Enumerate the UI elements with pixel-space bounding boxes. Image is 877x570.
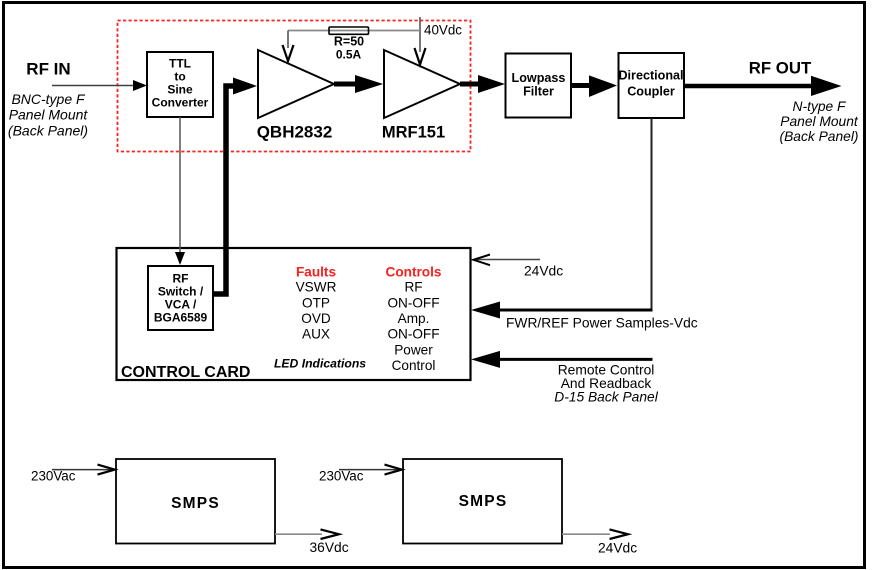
svg-text:Amp.: Amp. — [398, 311, 430, 326]
svg-text:Sine: Sine — [167, 83, 193, 97]
block RF Switch / VCA / BGA6589 — [148, 266, 213, 330]
svg-text:Filter: Filter — [523, 85, 554, 99]
wire RF switch output to QBH2832 input (thick) — [213, 78, 257, 295]
RF amplifier module boundary (red dashed) — [118, 21, 471, 152]
svg-text:AUX: AUX — [302, 327, 330, 342]
label Controls column — [386, 265, 442, 374]
wire RF IN to TTL converter — [52, 80, 147, 91]
svg-text:Lowpass: Lowpass — [512, 71, 566, 85]
wire SMPS 2 24Vdc output — [562, 529, 628, 539]
wire TTL converter to RF switch — [175, 117, 185, 265]
svg-text:BNC-type F: BNC-type F — [11, 91, 86, 107]
svg-text:SMPS: SMPS — [459, 493, 508, 510]
svg-text:24Vdc: 24Vdc — [598, 541, 637, 556]
svg-text:0.5A: 0.5A — [336, 48, 362, 62]
label LED Indications — [274, 357, 366, 371]
svg-text:Panel Mount: Panel Mount — [9, 107, 89, 123]
svg-text:VSWR: VSWR — [296, 280, 337, 295]
svg-text:Panel Mount: Panel Mount — [780, 114, 859, 129]
label BNC-type F connector — [8, 91, 88, 138]
svg-text:RF OUT: RF OUT — [749, 59, 812, 78]
label Remote Control And Readback — [554, 363, 658, 405]
node 24Vdc — [524, 264, 563, 279]
svg-text:230Vac: 230Vac — [31, 469, 76, 484]
svg-text:N-type F: N-type F — [793, 99, 847, 114]
label FWR/REF Power Samples — [506, 316, 698, 331]
svg-text:Coupler: Coupler — [627, 85, 675, 99]
label N-type F connector — [780, 99, 859, 144]
resistor R1 R=50 0.5A (fuse symbol) — [329, 27, 369, 62]
svg-text:Converter: Converter — [152, 96, 209, 110]
wire lowpass filter to directional coupler — [571, 75, 617, 97]
wire remote control input to control card — [471, 351, 653, 368]
wire 40Vdc through resistor to QBH2832 drain — [283, 31, 421, 62]
svg-text:to: to — [174, 70, 185, 84]
node RF IN — [26, 60, 70, 79]
svg-text:24Vdc: 24Vdc — [524, 264, 563, 279]
svg-text:Controls: Controls — [386, 265, 442, 280]
node 24Vdc output — [598, 541, 637, 556]
svg-text:36Vdc: 36Vdc — [310, 540, 349, 555]
wire QBH2832 to MRF151 — [334, 75, 383, 93]
node 230Vac (SMPS 1) — [31, 469, 76, 484]
wire directional coupler to RF OUT — [684, 76, 842, 96]
wire SMPS 1 36Vdc output — [275, 529, 339, 539]
svg-text:RF IN: RF IN — [26, 60, 70, 79]
amplifier QBH2832 — [257, 50, 334, 142]
block Lowpass Filter — [506, 54, 572, 118]
svg-text:SMPS: SMPS — [171, 495, 220, 512]
svg-text:Control: Control — [392, 358, 436, 373]
wire MRF151 to lowpass filter — [460, 75, 505, 93]
node 230Vac (SMPS 2) — [319, 469, 364, 484]
block SMPS 2 — [403, 459, 562, 544]
wire 230Vac input to SMPS 2 — [339, 465, 402, 475]
wire FWR/REF power samples to control card — [471, 302, 653, 319]
svg-text:OTP: OTP — [302, 296, 330, 311]
svg-text:Faults: Faults — [296, 265, 336, 280]
svg-text:Switch /: Switch / — [158, 285, 204, 299]
svg-text:QBH2832: QBH2832 — [257, 123, 333, 142]
svg-text:(Back Panel): (Back Panel) — [780, 129, 859, 144]
wire coupler power sample down — [651, 118, 653, 311]
node 36Vdc — [310, 540, 349, 555]
amplifier MRF151 — [382, 50, 460, 142]
svg-text:Power: Power — [394, 343, 433, 358]
svg-text:40Vdc: 40Vdc — [424, 23, 462, 38]
svg-text:ON-OFF: ON-OFF — [387, 296, 439, 311]
svg-text:OVD: OVD — [301, 311, 331, 326]
svg-text:RF: RF — [173, 272, 189, 286]
svg-text:D-15 Back Panel: D-15 Back Panel — [554, 390, 658, 405]
wire 230Vac input to SMPS 1 — [52, 465, 115, 475]
svg-text:VCA /: VCA / — [165, 298, 197, 312]
wire 40Vdc to MRF151 drain — [415, 17, 426, 65]
node RF OUT — [749, 59, 812, 78]
label Faults LED column — [296, 265, 337, 342]
svg-text:R=50: R=50 — [334, 35, 364, 49]
svg-text:RF: RF — [404, 280, 422, 295]
svg-text:MRF151: MRF151 — [382, 124, 445, 142]
node 40Vdc supply — [424, 23, 462, 38]
block TTL to Sine Converter — [147, 52, 213, 117]
block SMPS 1 — [116, 459, 275, 544]
svg-text:LED Indications: LED Indications — [274, 357, 366, 371]
svg-text:230Vac: 230Vac — [319, 469, 364, 484]
svg-text:ON-OFF: ON-OFF — [387, 327, 439, 342]
svg-text:FWR/REF Power Samples-Vdc: FWR/REF Power Samples-Vdc — [506, 316, 698, 331]
svg-text:(Back Panel): (Back Panel) — [8, 122, 88, 138]
wire 24Vdc input to control card — [474, 255, 541, 266]
svg-text:TTL: TTL — [169, 57, 191, 71]
block Directional Coupler — [618, 53, 684, 118]
block CONTROL CARD — [117, 248, 471, 381]
svg-text:BGA6589: BGA6589 — [154, 311, 208, 325]
svg-text:CONTROL CARD: CONTROL CARD — [121, 364, 250, 381]
svg-text:Directional: Directional — [618, 69, 683, 83]
